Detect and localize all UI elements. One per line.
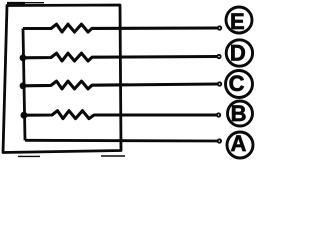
svg-text:B: B xyxy=(231,101,247,126)
svg-text:D: D xyxy=(230,41,246,66)
svg-text:A: A xyxy=(230,131,246,156)
svg-text:E: E xyxy=(230,9,245,34)
svg-text:C: C xyxy=(229,71,245,96)
